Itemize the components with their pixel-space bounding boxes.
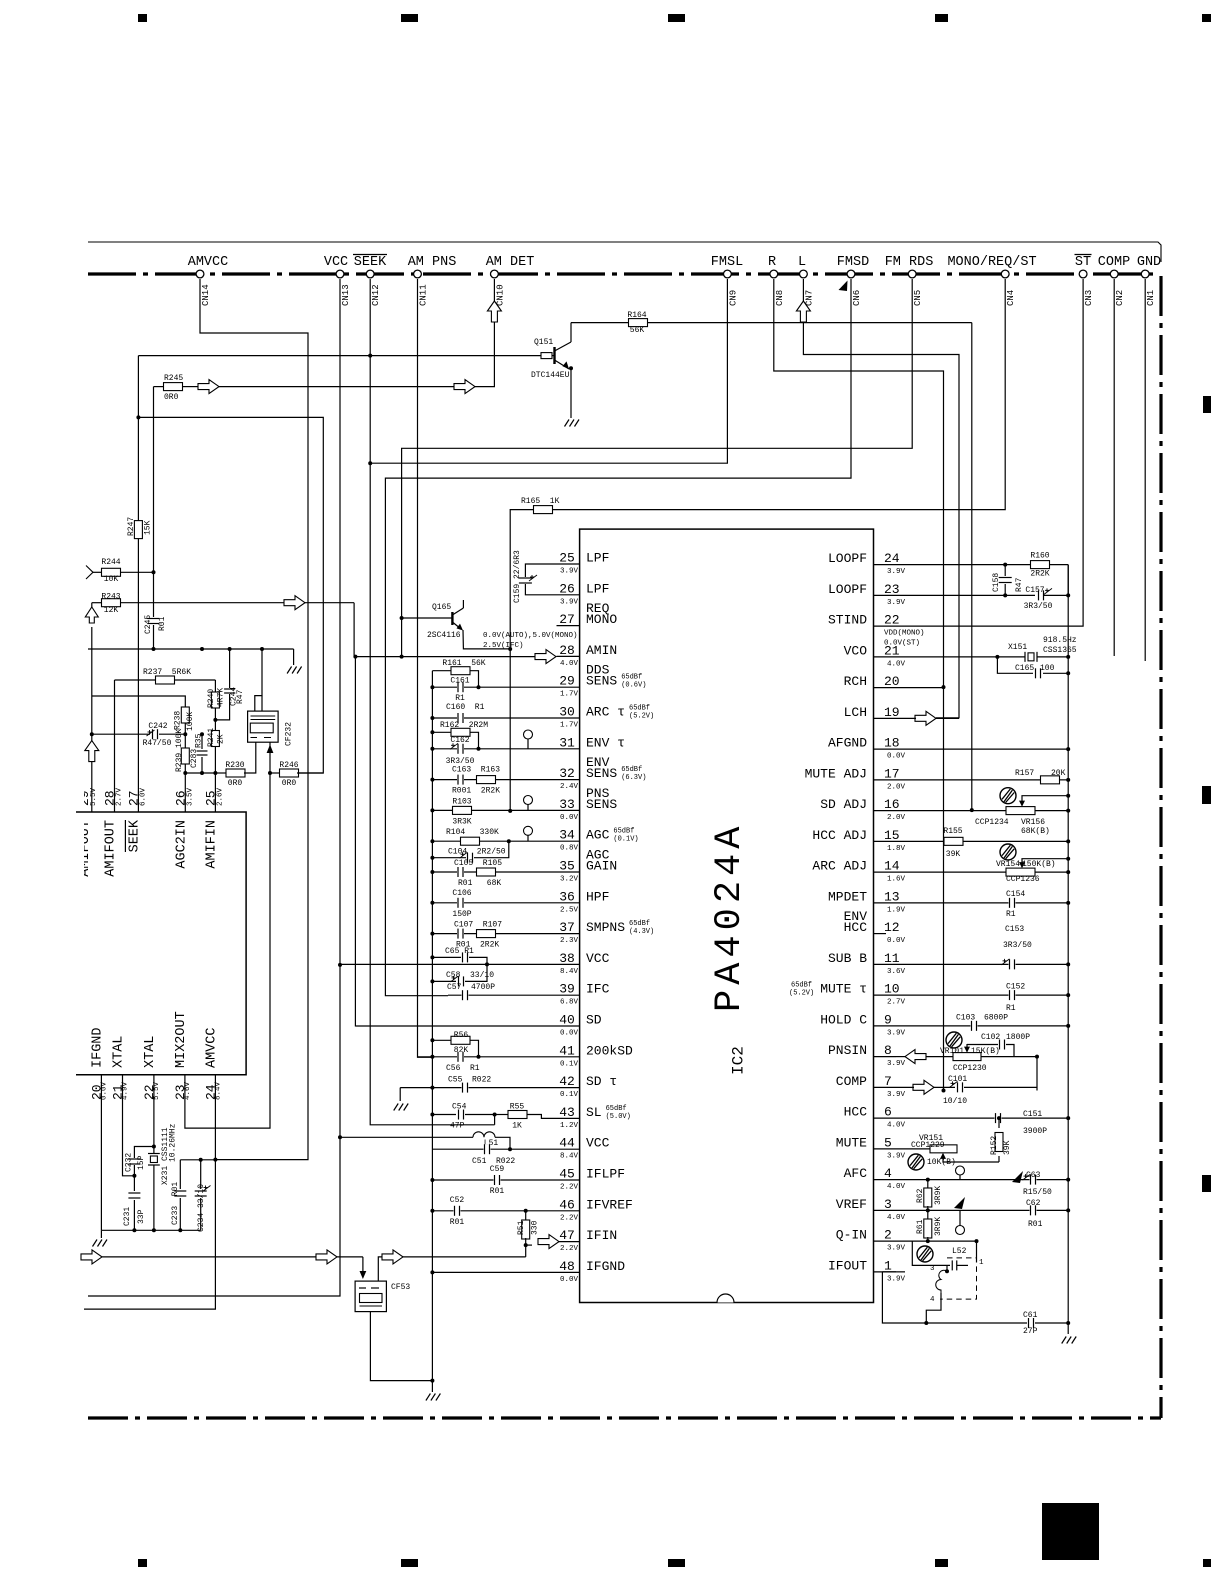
svg-text:4: 4 (930, 1296, 935, 1304)
wire C54 jog down to CN12 branch (494, 1115, 496, 1125)
registration mark right 3 (1202, 1175, 1211, 1192)
registration mark top 2 (401, 14, 418, 22)
svg-text:CN3: CN3 (1084, 290, 1094, 306)
svg-text:39: 39 (559, 982, 575, 997)
junction C231/C232 (132, 1174, 136, 1178)
wire R238 top line (92, 696, 186, 707)
svg-text:CN4: CN4 (1006, 290, 1016, 306)
wire SEEK tap to R246 net (138, 417, 323, 773)
svg-text:0.0V(AUTO),5.0V(MONO): 0.0V(AUTO),5.0V(MONO) (483, 632, 578, 640)
svg-text:C161: C161 (450, 677, 469, 686)
svg-text:C59: C59 (490, 1165, 505, 1174)
capacitor C102 1800P (999, 1040, 1006, 1050)
svg-text:3R3K: 3R3K (452, 817, 471, 826)
pin3 VREF line (896, 1209, 1068, 1211)
capacitor C152 R1 (896, 994, 1068, 996)
wire CN5 FM RDS down (402, 279, 913, 657)
svg-text:FMSD: FMSD (837, 255, 869, 270)
svg-text:3: 3 (930, 1265, 935, 1273)
svg-text:1.8V: 1.8V (887, 845, 906, 853)
svg-text:C101: C101 (948, 1075, 967, 1084)
svg-text:23: 23 (884, 582, 900, 597)
black marker at pin3 (954, 1197, 965, 1209)
svg-text:SENS: SENS (586, 766, 617, 781)
connector CN9 (FMSL) (724, 270, 732, 278)
svg-text:R47: R47 (236, 689, 245, 704)
IC2 left pin 35 AGC/GAIN (557, 871, 580, 873)
svg-text:LCH: LCH (844, 705, 867, 720)
svg-text:918.5Hz: 918.5Hz (1043, 636, 1077, 645)
svg-text:C151: C151 (1023, 1110, 1042, 1119)
svg-text:65dBf: 65dBf (629, 705, 650, 713)
svg-text:16: 16 (884, 797, 900, 812)
capacitor C283 R35 (201, 734, 203, 749)
svg-text:C55 R022: C55 R022 (448, 1076, 491, 1085)
svg-text:28: 28 (559, 643, 575, 658)
IC2 left pin 29 DDS/SENS (557, 686, 580, 688)
IC2 right pin 2 Q-IN (874, 1240, 897, 1242)
IC1 block (partial) (76, 812, 246, 1075)
svg-text:20K: 20K (1051, 769, 1066, 778)
IC2 left pin 36 HPF (557, 902, 580, 904)
frame bottom dash-dot border (88, 1416, 1161, 1419)
svg-text:3R9K: 3R9K (934, 1217, 943, 1236)
IC2 right pin 14 ARC ADJ (874, 871, 897, 873)
svg-text:3.5V: 3.5V (186, 787, 194, 806)
wire CN2 COMP down (1113, 279, 1115, 656)
IC2 right pin 7 COMP (874, 1086, 897, 1088)
svg-text:C103: C103 (956, 1014, 975, 1023)
svg-text:C283: C283 (190, 749, 199, 768)
svg-text:4.0V: 4.0V (887, 660, 906, 668)
svg-text:200kSD: 200kSD (586, 1043, 633, 1058)
svg-text:8: 8 (884, 1043, 892, 1058)
svg-text:C159 22/6R3: C159 22/6R3 (513, 550, 522, 603)
svg-text:C63: C63 (1026, 1171, 1041, 1180)
svg-text:47P: 47P (450, 1122, 465, 1131)
IC2 right pin 16 SD ADJ (874, 810, 897, 812)
IC2 left pin 34 AGC (557, 840, 580, 842)
capacitor C159 22/6R3 loop (525, 564, 556, 577)
svg-text:SD: SD (586, 1013, 602, 1028)
resistor R239 100K vertical (184, 734, 186, 748)
svg-text:C234 33/10: C234 33/10 (197, 1184, 206, 1232)
wire pin24 AMVCC column (84, 1075, 215, 1309)
svg-text:GAIN: GAIN (586, 859, 617, 874)
svg-text:8.4V: 8.4V (560, 1153, 579, 1161)
svg-text:R: R (768, 255, 776, 270)
svg-text:150P: 150P (452, 910, 471, 919)
svg-text:C154: C154 (1006, 890, 1025, 899)
svg-text:6.0V: 6.0V (139, 787, 147, 806)
svg-text:44: 44 (559, 1136, 575, 1151)
svg-text:CN11: CN11 (419, 284, 429, 306)
svg-text:GND: GND (1137, 255, 1161, 270)
IC2 right pin 9 HOLD C (874, 1025, 897, 1027)
svg-text:R152: R152 (990, 1136, 999, 1155)
svg-text:39K: 39K (946, 850, 961, 859)
junction CF53 ground (430, 1379, 434, 1383)
connector CN8 (R) (770, 270, 778, 278)
svg-text:R1: R1 (1006, 910, 1016, 919)
IC2 left pin 37 SMPNS (557, 933, 580, 935)
svg-text:R01: R01 (158, 616, 167, 631)
svg-text:20: 20 (884, 674, 900, 689)
svg-text:MPDET: MPDET (828, 889, 867, 904)
resistor R103 3R3K (432, 809, 556, 811)
top connector bus dash-dot line (88, 272, 1159, 275)
registration mark bottom 1 (138, 1559, 147, 1567)
svg-text:L: L (798, 255, 806, 270)
svg-text:SEEK: SEEK (127, 819, 142, 852)
IC2 right pin 13 MPDET (874, 902, 897, 904)
connector CN7 (L) (800, 270, 808, 278)
right ground rail (1067, 565, 1069, 1334)
svg-text:CN5: CN5 (913, 290, 923, 306)
capacitor C107 and resistor R107 (432, 933, 556, 935)
svg-text:IFIN: IFIN (586, 1228, 617, 1243)
svg-text:HPF: HPF (586, 889, 609, 904)
arrow on R245 line (198, 380, 219, 394)
junction CN5 line joins pin28 line (400, 655, 404, 659)
registration mark top 5 (1202, 14, 1211, 22)
svg-text:AMVCC: AMVCC (188, 255, 229, 270)
svg-text:VR156: VR156 (1021, 818, 1045, 827)
test point at pin4 (956, 1166, 965, 1175)
svg-text:100K: 100K (186, 712, 195, 731)
svg-text:65dBf: 65dBf (621, 766, 642, 774)
svg-text:65dBf: 65dBf (606, 1105, 627, 1113)
svg-text:24: 24 (884, 551, 900, 566)
svg-text:3R3/50: 3R3/50 (1003, 941, 1032, 950)
svg-text:R164: R164 (627, 311, 646, 320)
capacitor C157 3R3/50 (896, 594, 1035, 596)
capacitor C162 3R3/50 (432, 748, 556, 750)
svg-text:C61: C61 (1023, 1311, 1038, 1320)
svg-text:15K: 15K (144, 520, 153, 535)
pin47 input arrow (538, 1235, 559, 1249)
IC2 left pin 41 200kSD (557, 1056, 580, 1058)
svg-text:4.0V: 4.0V (887, 1183, 906, 1191)
svg-text:C153: C153 (1005, 925, 1024, 934)
potentiometer VR156 68K(B) CCP1234 (1006, 807, 1035, 815)
svg-text:MUTE: MUTE (836, 1135, 867, 1150)
pin8 PNSIN arrow (905, 1050, 926, 1064)
wire Q151 base line from SEEK net (138, 355, 541, 357)
left ground rail vertical (431, 671, 433, 1381)
svg-text:SENS: SENS (586, 797, 617, 812)
wire CF232 bottom left pin to R230 (255, 741, 257, 743)
junction C245 bottom (152, 647, 156, 651)
adjust symbol at VR101 (946, 1032, 962, 1048)
svg-text:33: 33 (559, 797, 575, 812)
ceramic filter CF232 (248, 711, 279, 742)
svg-text:C54: C54 (452, 1103, 467, 1112)
svg-text:7: 7 (884, 1074, 892, 1089)
svg-text:(4.3V): (4.3V) (629, 928, 654, 936)
wire CN10 below arrow to R245 line (475, 322, 494, 387)
svg-text:2.5V: 2.5V (560, 906, 579, 914)
wire CN7 below arrow to pin19 LCH (803, 322, 959, 718)
resistor R165 1K (534, 506, 553, 514)
connector CN13 (VCC) (336, 270, 344, 278)
potentiometer VR101 15K(B) CCP1230 (953, 1053, 981, 1061)
svg-text:2R2K: 2R2K (1030, 570, 1049, 579)
svg-text:36: 36 (559, 889, 575, 904)
wire CN12 SEEK down (369, 279, 371, 463)
capacitor C153 3R3/50 (896, 963, 1068, 965)
wire R165 to Q165 collector (510, 510, 533, 649)
pin4 AFC line (896, 1179, 1068, 1181)
resistor R246 0R0 (268, 771, 272, 775)
svg-text:C232: C232 (125, 1153, 134, 1172)
svg-text:R01: R01 (1028, 1220, 1043, 1229)
svg-text:VR154: VR154 (996, 860, 1020, 869)
IC2 right pin 20 RCH (874, 687, 897, 689)
svg-text:IFVREF: IFVREF (586, 1197, 633, 1212)
junction CN12 at Q151 base line (368, 354, 372, 358)
svg-text:VCC: VCC (586, 951, 610, 966)
svg-text:2.2V: 2.2V (560, 1214, 579, 1222)
svg-text:2K: 2K (217, 734, 226, 744)
svg-text:CN6: CN6 (852, 290, 862, 306)
IC2 left pin 38 VCC (557, 963, 580, 965)
svg-text:R001 2R2K: R001 2R2K (452, 787, 500, 796)
pin38 VCC line from CN13 (340, 963, 557, 965)
black marker near FMSD (839, 281, 848, 292)
svg-text:10K(B): 10K(B) (927, 1158, 956, 1167)
svg-text:SD ADJ: SD ADJ (820, 797, 867, 812)
wire CF53 bottom to ground rail (370, 1312, 432, 1381)
svg-text:C242: C242 (148, 722, 167, 731)
svg-text:C62: C62 (1026, 1199, 1041, 1208)
svg-text:AFGND: AFGND (828, 736, 867, 751)
svg-text:65dBf: 65dBf (629, 920, 650, 928)
svg-text:0.0V: 0.0V (887, 753, 906, 761)
svg-text:IFOUT: IFOUT (828, 1258, 867, 1273)
svg-text:(0.1V): (0.1V) (613, 836, 638, 844)
frame right dash-dot border (1159, 276, 1162, 1418)
svg-text:C162: C162 (450, 736, 469, 745)
junction R51 top at pin46 (524, 1209, 528, 1213)
svg-text:12: 12 (884, 920, 900, 935)
svg-text:8.4V: 8.4V (560, 968, 579, 976)
svg-text:33P: 33P (137, 1209, 146, 1224)
svg-text:11: 11 (884, 951, 900, 966)
svg-text:3.9V: 3.9V (887, 1275, 906, 1283)
capacitor C104 2R2/50 (432, 857, 466, 859)
junction CN12 at FMSL line (368, 461, 372, 465)
svg-text:XTAL: XTAL (143, 1036, 158, 1068)
test point at pin31 (524, 730, 533, 739)
svg-text:IFLPF: IFLPF (586, 1167, 625, 1182)
IC2 right pin 4 AFC (874, 1179, 897, 1181)
junction C283 column at rail (200, 647, 204, 651)
resistor R237 5R6K (115, 679, 158, 681)
svg-text:43: 43 (559, 1105, 575, 1120)
svg-text:2.6V: 2.6V (216, 787, 224, 806)
svg-text:ARC τ: ARC τ (586, 705, 625, 720)
svg-text:0.1V: 0.1V (560, 1060, 579, 1068)
svg-text:R35: R35 (195, 733, 204, 748)
wire C233/C234 top to AMVCC (180, 1159, 215, 1161)
svg-text:6800P: 6800P (984, 1014, 1008, 1023)
svg-text:MONO: MONO (586, 612, 617, 627)
svg-text:R240: R240 (207, 689, 216, 708)
capacitor C160 R1 (432, 717, 556, 719)
svg-text:CF53: CF53 (391, 1283, 410, 1292)
resistor R104 330K (432, 840, 556, 842)
ground at X231 rail (100, 1230, 102, 1238)
svg-text:C57 4700P: C57 4700P (447, 983, 495, 992)
wire CN11 AM PNS down to pin41 (418, 279, 433, 1057)
svg-text:31: 31 (559, 735, 575, 750)
connector CN2 (COMP) (1110, 270, 1118, 278)
capacitor C163 and resistor R163 (432, 779, 556, 781)
capacitor C234 33/10 (200, 1160, 202, 1189)
svg-text:CCP1236: CCP1236 (1006, 875, 1040, 884)
svg-text:LOOPF: LOOPF (828, 582, 867, 597)
svg-text:0R0: 0R0 (228, 779, 243, 788)
svg-text:3.9V: 3.9V (887, 599, 906, 607)
svg-text:CCP1234: CCP1234 (975, 818, 1009, 827)
svg-text:40: 40 (559, 1013, 575, 1028)
ground stem at pin42 (399, 1088, 401, 1101)
IC2 left pin 43 SL (557, 1117, 580, 1119)
svg-text:R47/50: R47/50 (143, 739, 172, 748)
junction C242 line at left pin (90, 732, 94, 736)
IC2 right pin 1 IFOUT (874, 1271, 897, 1273)
svg-text:32: 32 (559, 766, 575, 781)
IC2 left pin 39 IFC (557, 994, 580, 996)
svg-text:1800P: 1800P (1006, 1033, 1030, 1042)
svg-text:30: 30 (559, 705, 575, 720)
svg-text:Q151: Q151 (534, 338, 553, 347)
wire into CF53 with arrowhead (362, 1257, 364, 1272)
svg-text:CF232: CF232 (285, 722, 294, 746)
wire Q151 emitter to ground (570, 369, 572, 418)
svg-text:SL: SL (586, 1105, 602, 1120)
svg-text:LPF: LPF (586, 581, 609, 596)
svg-text:CN12: CN12 (371, 284, 381, 306)
svg-text:AGC: AGC (586, 828, 610, 843)
svg-text:3.9V: 3.9V (560, 568, 579, 576)
IC2 right pin 19 LCH (874, 717, 897, 719)
svg-text:35: 35 (559, 859, 575, 874)
IC2 right pin 23 LOOPF (874, 594, 897, 596)
capacitor C105 and resistor R105 68K (432, 871, 556, 873)
svg-text:HCC ADJ: HCC ADJ (812, 828, 867, 843)
svg-text:XTAL: XTAL (112, 1036, 127, 1068)
svg-text:C157: C157 (1025, 586, 1044, 595)
connector CN1 (GND) (1141, 270, 1149, 278)
svg-text:C231: C231 (123, 1207, 132, 1226)
svg-text:IFC: IFC (586, 982, 610, 997)
arrow 2 on R245 line (454, 380, 475, 394)
svg-text:0.1V: 0.1V (560, 1091, 579, 1099)
wire VR101 node down to C101 (1036, 1057, 1038, 1091)
inductor L51 (340, 1136, 473, 1138)
svg-text:19: 19 (884, 705, 900, 720)
pin7 COMP arrow (913, 1080, 934, 1094)
svg-text:0R0: 0R0 (282, 779, 297, 788)
resistor R160 2R2K (896, 564, 1032, 566)
connector CN10 (AM DET) (491, 270, 499, 278)
svg-text:0.0V: 0.0V (560, 814, 579, 822)
wire L52 pin4 down (926, 1293, 941, 1323)
wire IC1 leftmost pin up with arrow (91, 760, 93, 812)
large black square bottom right (1042, 1503, 1099, 1560)
transistor Q151 DTC144EU (541, 353, 552, 359)
junction C244 top (228, 647, 232, 651)
svg-text:C152: C152 (1006, 983, 1025, 992)
IC2 left pin 26 LPF (557, 594, 580, 596)
registration mark bottom 3 (668, 1559, 685, 1567)
wire rail down to ground (293, 649, 295, 665)
svg-text:2.3V: 2.3V (560, 937, 579, 945)
svg-text:4.0V: 4.0V (560, 660, 579, 668)
svg-text:R239 100K: R239 100K (175, 729, 184, 772)
svg-text:17: 17 (884, 766, 900, 781)
IC2 left pin 47 IFIN (557, 1241, 580, 1243)
svg-text:SD τ: SD τ (586, 1074, 617, 1089)
junction CN13 at L51 line (338, 1135, 342, 1139)
svg-text:ARC ADJ: ARC ADJ (812, 859, 867, 874)
svg-text:3R3/50: 3R3/50 (446, 757, 475, 766)
svg-text:Q-IN: Q-IN (836, 1228, 867, 1243)
wire node down to pin33 line (509, 649, 511, 811)
svg-text:6.8V: 6.8V (560, 999, 579, 1007)
capacitor C151 3900P (896, 1117, 1068, 1119)
capacitor C242 R47/50 (92, 733, 150, 735)
svg-text:39K: 39K (1003, 1140, 1012, 1155)
ground right of CF232 rail (287, 667, 292, 674)
svg-text:ST: ST (1075, 255, 1091, 270)
svg-text:3900P: 3900P (1023, 1127, 1047, 1136)
svg-text:22: 22 (884, 613, 900, 628)
svg-text:R161 56K: R161 56K (442, 659, 485, 668)
test point at pin33 (524, 796, 533, 805)
capacitor C57 4700P (448, 994, 557, 996)
svg-text:R01 68K: R01 68K (458, 879, 501, 888)
svg-text:1: 1 (884, 1258, 892, 1273)
svg-text:15K(B): 15K(B) (971, 1047, 1000, 1056)
capacitor C106 150P (432, 902, 556, 904)
svg-text:AMIFIN: AMIFIN (204, 820, 219, 869)
svg-text:C56 R1: C56 R1 (446, 1064, 480, 1073)
svg-text:2.2V: 2.2V (560, 1245, 579, 1253)
junction CF232 feed (260, 647, 264, 651)
wire CN13 VCC down (88, 279, 340, 1296)
svg-text:SEEK: SEEK (354, 255, 387, 270)
capacitor C61 27P (926, 1322, 1027, 1324)
svg-text:CN8: CN8 (775, 290, 785, 306)
connector CN14 (AMVCC) (196, 270, 204, 278)
junction SEEK at R244? tap line (136, 415, 140, 419)
svg-text:AM DET: AM DET (486, 255, 535, 270)
wire R243 net down to pin28/pin40 (354, 603, 355, 1027)
capacitor C55 R022 (400, 1087, 556, 1089)
wire SEEK pin up to Q151 base line (137, 539, 139, 812)
svg-text:R01: R01 (450, 1218, 465, 1227)
svg-text:L52: L52 (952, 1247, 967, 1256)
svg-text:CN1: CN1 (1146, 290, 1156, 306)
svg-text:34: 34 (559, 828, 575, 843)
svg-text:STIND: STIND (828, 613, 867, 628)
svg-text:R245: R245 (164, 374, 183, 383)
IC2 left pin 42 SD τ (557, 1087, 580, 1089)
wire R164 net down to pin16 SD ADJ (971, 323, 973, 810)
